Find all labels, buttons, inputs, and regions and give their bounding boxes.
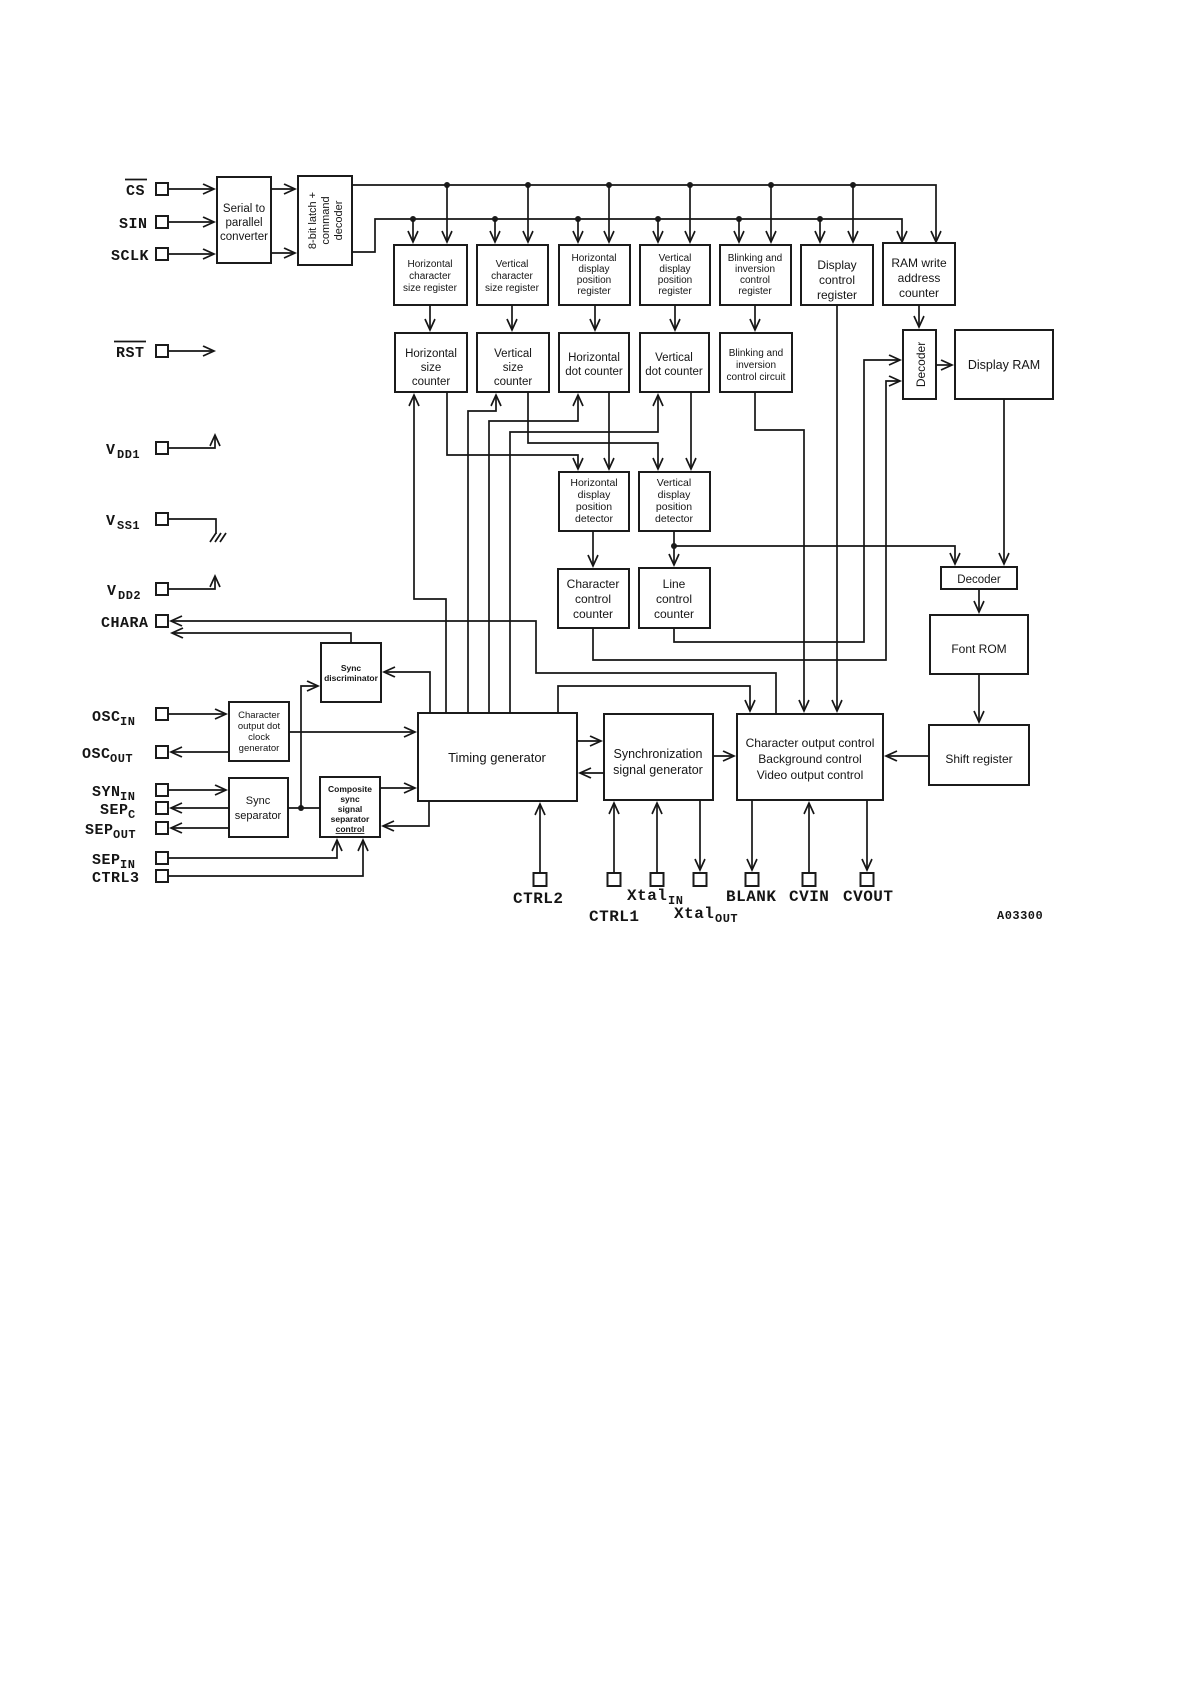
svg-text:generator: generator (239, 743, 280, 754)
svg-text:Display: Display (817, 258, 856, 272)
svg-text:8-bit latch +: 8-bit latch + (307, 192, 319, 249)
svg-text:position: position (576, 501, 612, 513)
svg-text:register: register (817, 288, 857, 302)
box U8 Line control counter (639, 568, 710, 628)
box C3 Horizontal dot counter (559, 333, 629, 392)
svg-text:counter: counter (494, 376, 533, 388)
wire bus1 from U2 to R7 (352, 185, 936, 242)
box U12 Sync discriminator (321, 643, 381, 702)
svg-text:RAM write: RAM write (891, 256, 947, 270)
wire U16 to U18 top (558, 686, 750, 713)
svg-text:register: register (658, 286, 692, 297)
svg-text:Vertical: Vertical (659, 253, 692, 264)
svg-text:control circuit: control circuit (727, 372, 786, 383)
svg-text:counter: counter (654, 607, 694, 621)
svg-text:sync: sync (340, 794, 360, 804)
svg-text:Font ROM: Font ROM (951, 642, 1006, 656)
svg-text:size register: size register (485, 283, 540, 294)
box R1 Horizontal character size register (394, 245, 467, 305)
svg-text:OSC: OSC (82, 746, 111, 763)
pin CTRL3 (92, 840, 363, 887)
wire SCLK pin to U1 (168, 253, 214, 255)
box U9 Decoder (font) (941, 567, 1017, 589)
svg-text:Video output control: Video output control (757, 768, 864, 782)
junction U14 branch dot (298, 805, 304, 811)
pin SYNIN (92, 784, 226, 804)
wire U3 to U4 (936, 364, 952, 366)
svg-text:position: position (656, 501, 692, 513)
pin SEPC (100, 802, 229, 822)
svg-text:counter: counter (899, 286, 939, 300)
wire U15 to U16 (380, 787, 415, 789)
wire U16 clock to C2 (468, 395, 496, 713)
svg-text:separator: separator (331, 814, 370, 824)
svg-text:OUT: OUT (110, 752, 133, 766)
svg-text:SEP: SEP (85, 822, 114, 839)
pin OSCIN (92, 708, 226, 729)
wire bus1 drop to R3 (608, 185, 610, 242)
pin RST (114, 342, 214, 363)
wire C3 to U5 (608, 392, 610, 469)
wire U16 clock to C1 (414, 395, 446, 713)
box U10 Font ROM (930, 615, 1028, 674)
wire U14 to U15 (288, 807, 320, 809)
pin SCLK (111, 248, 168, 265)
svg-text:display: display (658, 489, 691, 501)
note A03300 (997, 909, 1043, 923)
svg-text:Xtal: Xtal (627, 887, 667, 905)
svg-text:command: command (320, 196, 332, 244)
box C5 Blinking and inversion control circuit (720, 333, 792, 392)
svg-text:position: position (577, 275, 611, 286)
wire bus2 drop to R4 (657, 219, 659, 242)
wire U4 to U9 (1003, 399, 1005, 564)
svg-text:CTRL1: CTRL1 (589, 908, 640, 926)
svg-text:Timing generator: Timing generator (448, 750, 546, 765)
svg-text:control: control (336, 824, 365, 834)
wire U6 branch to U9 (674, 546, 955, 564)
svg-text:CTRL2: CTRL2 (513, 890, 564, 908)
box C4 Vertical dot counter (640, 333, 709, 392)
wire U10 to U11 (978, 674, 980, 722)
wire U16 clock to C4 (510, 395, 658, 713)
svg-text:CVOUT: CVOUT (843, 888, 894, 906)
box U6 Vertical display position detector (639, 472, 710, 531)
wire U14 branch to U12 (301, 686, 318, 808)
box R7 RAM write address counter (883, 243, 955, 305)
wire U16 clock to C3 (489, 395, 578, 713)
box U5 Horizontal display position detector (559, 472, 629, 531)
svg-text:signal: signal (338, 804, 363, 814)
svg-text:signal generator: signal generator (613, 763, 703, 777)
wire U8 to U3 upper input (674, 360, 900, 642)
svg-text:Display RAM: Display RAM (968, 358, 1040, 372)
svg-text:SS1: SS1 (117, 519, 140, 533)
svg-text:control: control (819, 273, 855, 287)
svg-text:dot counter: dot counter (645, 366, 703, 378)
pin XtalOUT (674, 800, 738, 926)
box U18 Character output / Background / Video output control (737, 714, 883, 800)
wire U6 to U8 (673, 531, 675, 565)
svg-text:SYN: SYN (92, 784, 121, 801)
pin VDD2 (107, 576, 215, 603)
wire R6 to U18 top (836, 305, 838, 711)
box U7 Character control counter (558, 569, 629, 628)
svg-text:Vertical: Vertical (496, 259, 529, 270)
wire U18 to CHARA pin (171, 621, 776, 714)
wire C5 to U18 top (755, 392, 804, 711)
pin SEPIN (92, 840, 337, 872)
svg-text:character: character (491, 271, 533, 282)
svg-text:size: size (503, 362, 523, 374)
svg-text:dot counter: dot counter (565, 366, 623, 378)
svg-text:position: position (658, 275, 692, 286)
svg-text:CVIN: CVIN (789, 888, 829, 906)
svg-text:C: C (128, 808, 136, 822)
svg-text:Synchronization: Synchronization (614, 747, 703, 761)
svg-text:V: V (107, 583, 117, 600)
svg-text:display: display (659, 264, 690, 275)
svg-text:Blinking and: Blinking and (729, 348, 783, 359)
svg-text:SEP: SEP (100, 802, 129, 819)
wire U1 to U2 upper (271, 188, 295, 190)
svg-text:address: address (898, 271, 941, 285)
svg-text:character: character (409, 271, 451, 282)
svg-text:detector: detector (575, 513, 613, 525)
wire U16 to U17 (577, 740, 601, 742)
pin CS (125, 180, 168, 201)
svg-text:Horizontal: Horizontal (568, 352, 620, 364)
wire bus2 from U2 to R7 left (352, 219, 902, 252)
box R6 Display control register (801, 245, 873, 305)
svg-text:Background control: Background control (758, 752, 861, 766)
svg-text:Horizontal: Horizontal (407, 259, 452, 270)
svg-text:discriminator: discriminator (324, 673, 379, 683)
pin VDD1 (106, 435, 215, 462)
svg-text:Decoder: Decoder (914, 342, 928, 387)
svg-text:detector: detector (655, 513, 693, 525)
svg-text:control: control (575, 592, 611, 606)
svg-text:Horizontal: Horizontal (570, 477, 617, 489)
box U1 Serial to parallel converter (217, 177, 271, 263)
svg-text:Sync: Sync (246, 795, 271, 807)
wire U16 to U12 (384, 672, 430, 713)
svg-text:Vertical: Vertical (655, 352, 693, 364)
wire R7 to U3 (918, 305, 920, 327)
wire bus1 drop to R5 (770, 185, 772, 242)
svg-text:size register: size register (403, 283, 458, 294)
svg-text:OUT: OUT (113, 828, 136, 842)
svg-text:V: V (106, 442, 116, 459)
svg-text:OSC: OSC (92, 709, 121, 726)
wire U12 to CHARA lower arrow (172, 633, 351, 643)
wire U17 to U18 (713, 755, 734, 757)
box C2 Vertical size counter (477, 333, 549, 392)
box U15 Composite sync signal separator control (320, 777, 380, 837)
svg-text:register: register (577, 286, 611, 297)
svg-text:Character: Character (238, 710, 280, 721)
wire bus1 drop to R1 (446, 185, 448, 242)
svg-text:output dot: output dot (238, 721, 281, 732)
svg-text:Composite: Composite (328, 784, 372, 794)
wire bus1 drop to R2 (527, 185, 529, 242)
svg-text:control: control (740, 275, 770, 286)
wire U16 to U15 (383, 801, 429, 826)
svg-text:Blinking and: Blinking and (728, 253, 782, 264)
svg-text:CTRL3: CTRL3 (92, 870, 140, 887)
svg-text:RST: RST (116, 345, 145, 362)
wire U9 to U10 (978, 589, 980, 612)
ground symbol (210, 533, 226, 542)
pin CTRL2 (513, 804, 564, 908)
pin VSS1 (106, 513, 216, 534)
svg-text:size: size (421, 362, 441, 374)
pin SIN (119, 216, 168, 233)
box U14 Sync separator (229, 778, 288, 837)
box R4 Vertical display position register (640, 245, 710, 305)
pin CVIN (789, 803, 829, 906)
junction bus2 dots (410, 216, 823, 222)
svg-text:Sync: Sync (341, 663, 362, 673)
svg-text:Shift register: Shift register (945, 752, 1012, 766)
wire bus1 drop to R6 (852, 185, 854, 242)
svg-text:register: register (738, 286, 772, 297)
wire U7 to U3 lower input (593, 381, 900, 660)
svg-text:inversion: inversion (736, 360, 776, 371)
box U16 Timing generator (418, 713, 577, 801)
svg-text:CHARA: CHARA (101, 615, 149, 632)
box R5 Blinking and inversion control register (720, 245, 791, 305)
svg-text:SEP: SEP (92, 852, 121, 869)
svg-text:separator: separator (235, 810, 282, 822)
svg-text:counter: counter (573, 607, 613, 621)
svg-text:parallel: parallel (225, 217, 262, 229)
junction U6 branch dot (671, 543, 677, 549)
wire R4 to C4 (674, 305, 676, 330)
box C1 Horizontal size counter (395, 333, 467, 392)
svg-text:Vertical: Vertical (657, 477, 691, 489)
svg-text:Xtal: Xtal (674, 905, 714, 923)
wire C1 to U5 (447, 392, 578, 469)
svg-text:display: display (578, 264, 609, 275)
pin OSCOUT (82, 746, 229, 766)
svg-text:clock: clock (248, 732, 270, 743)
svg-text:Vertical: Vertical (494, 348, 532, 360)
svg-text:Serial to: Serial to (223, 203, 265, 215)
pin BLANK (726, 800, 777, 906)
svg-text:Character output control: Character output control (746, 736, 875, 750)
wire bus2 drop to R1 (412, 219, 414, 242)
wire U11 to U18 (886, 755, 929, 757)
wire C4 to U6 (690, 392, 692, 469)
svg-text:Decoder: Decoder (957, 574, 1001, 586)
wire U13 to U16 (289, 731, 415, 733)
wire R2 to C2 (511, 305, 513, 330)
pin XtalIN (627, 803, 683, 908)
svg-text:CS: CS (126, 183, 145, 200)
pin CTRL1 (589, 803, 640, 926)
wire U5 to U7 (592, 531, 594, 566)
wire C2 to U6 (528, 392, 658, 469)
svg-text:A03300: A03300 (997, 909, 1043, 923)
svg-text:decoder: decoder (333, 200, 345, 240)
wire bus2 drop to R3 (577, 219, 579, 242)
svg-text:OUT: OUT (715, 912, 738, 926)
svg-text:display: display (578, 489, 611, 501)
svg-text:DD2: DD2 (118, 589, 141, 603)
svg-text:Horizontal: Horizontal (571, 253, 616, 264)
wire SIN pin to U1 (168, 221, 214, 223)
box U2 8-bit latch + command decoder (298, 176, 352, 265)
svg-text:Character: Character (567, 577, 620, 591)
wire bus1 drop to R4 (689, 185, 691, 242)
svg-text:Line: Line (663, 577, 686, 591)
wire bus2 drop to R2 (494, 219, 496, 242)
svg-text:converter: converter (220, 231, 268, 243)
box U4 Display RAM (955, 330, 1053, 399)
wire CS pin to U1 (168, 188, 214, 190)
box R3 Horizontal display position register (559, 245, 630, 305)
svg-text:IN: IN (120, 715, 135, 729)
svg-text:counter: counter (412, 376, 451, 388)
wire bus2 drop to R5 (738, 219, 740, 242)
wire R5 to C5 (754, 305, 756, 330)
svg-text:SIN: SIN (119, 216, 148, 233)
box U11 Shift register (929, 725, 1029, 785)
svg-text:BLANK: BLANK (726, 888, 777, 906)
wire U1 to U2 lower (271, 252, 295, 254)
box R2 Vertical character size register (477, 245, 548, 305)
box U17 Synchronization signal generator (604, 714, 713, 800)
wire R3 to C3 (594, 305, 596, 330)
junction bus1 dots (444, 182, 856, 188)
wire R1 to C1 (429, 305, 431, 330)
pin CVOUT (843, 800, 894, 906)
svg-text:Horizontal: Horizontal (405, 348, 457, 360)
wire bus2 drop to R6 (819, 219, 821, 242)
svg-text:SCLK: SCLK (111, 248, 149, 265)
pin CHARA (101, 615, 168, 632)
box U13 Character output dot clock generator (229, 702, 289, 761)
pin SEPOUT (85, 822, 229, 842)
wire U17 to U16 (580, 772, 604, 774)
svg-text:V: V (106, 513, 116, 530)
svg-text:control: control (656, 592, 692, 606)
svg-text:DD1: DD1 (117, 448, 140, 462)
box U3 Decoder (RAM address) (903, 330, 936, 399)
svg-text:inversion: inversion (735, 264, 775, 275)
